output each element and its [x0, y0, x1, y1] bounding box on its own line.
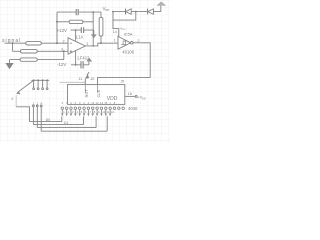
diode D1 [125, 9, 127, 15]
wire diode tap zigzag to gate pin 14 [113, 12, 136, 37]
wire junction drop to R2 line [12, 43, 14, 51]
junction feedback left on input wire [56, 42, 58, 44]
junction -12V rail [75, 64, 77, 66]
svg-text:14: 14 [113, 30, 117, 34]
resistor R4 pull-up vertical [99, 17, 103, 36]
wire feedback left vertical [56, 12, 58, 43]
svg-text:40106: 40106 [122, 49, 134, 54]
wire R4 bottom stub [100, 36, 102, 43]
svg-text:D1: D1 [64, 121, 68, 125]
capacitor C3 decoupling [81, 61, 83, 68]
svg-text:-12V: -12V [57, 62, 66, 67]
ground at +12V cap [91, 34, 97, 38]
wire op-amp top power stub [75, 30, 77, 41]
resistor R3 [20, 58, 37, 61]
wire op-amp bottom power stub [75, 51, 77, 65]
wire output stubs with arrows [62, 110, 110, 114]
resistor R2 [21, 50, 38, 53]
wire bus line 2 [33, 116, 83, 124]
junction VDD node [112, 11, 114, 13]
ground at -12V cap [86, 58, 92, 62]
wire signal input to op-amp pin 2 [5, 42, 69, 44]
svg-text:4040: 4040 [128, 106, 138, 111]
resistor R5 feedback [69, 20, 83, 23]
wire reset line faint [60, 81, 86, 83]
IC U3 4040 counter box [68, 85, 125, 105]
switch contact posts [34, 80, 48, 87]
svg-text:11: 11 [78, 77, 82, 81]
tap digits [33, 102, 43, 106]
wire D2 to supply arrow [153, 6, 160, 12]
wire wiper to bus [15, 95, 17, 107]
arrow RST chevron [87, 72, 89, 75]
junction input node [12, 42, 14, 44]
wire -12V rail [71, 62, 89, 65]
svg-text:3: 3 [61, 47, 63, 51]
svg-text:RST: RST [84, 89, 89, 98]
svg-text:1: 1 [86, 42, 88, 46]
pins Q outputs circles [61, 107, 124, 109]
junction R4 on gate line [100, 42, 102, 44]
wire VDD to diode D1 [113, 11, 126, 13]
wire RST stub [84, 79, 86, 85]
svg-text:IC5A: IC5A [124, 31, 133, 36]
wire feedback capacitor line top [57, 12, 101, 17]
pin numbers row [62, 101, 116, 105]
power supply arrow [156, 1, 166, 5]
junction inner vertical top [92, 11, 94, 13]
capacitor C1 feedback [76, 9, 78, 15]
svg-text:J5: J5 [121, 80, 125, 84]
junction +12V rail [75, 29, 77, 31]
wire R3 line from ground [10, 59, 64, 61]
switch wiper arm arrow [18, 81, 34, 93]
arrows on output stubs [61, 113, 111, 116]
svg-text:1: 1 [114, 38, 116, 42]
op-amp U1 LF412 [68, 38, 85, 54]
schmitt inverter U2 40106 IC5A [118, 36, 131, 49]
svg-text:16: 16 [128, 92, 132, 96]
wire R2 line to op-amp pin 3 [13, 50, 69, 52]
svg-text:10: 10 [90, 77, 94, 81]
diode D2 [147, 9, 149, 15]
junction feedback left on resistor line [56, 21, 58, 23]
pin CLK internal [97, 85, 99, 93]
wire bus line 1 [30, 116, 62, 121]
wire riser R3 to pin3 node [63, 51, 65, 59]
wire tap verticals to bus [33, 107, 41, 132]
capacitor C2 decoupling [81, 27, 83, 33]
svg-text:+12V: +12V [57, 28, 67, 33]
switch S1 contact bar [31, 79, 49, 81]
junction pin3 node [63, 50, 65, 52]
svg-text:L1A: L1A [76, 35, 84, 40]
tap terminal circles [33, 105, 43, 107]
junction inner vertical bottom on output [92, 45, 94, 47]
switch contact circles [33, 88, 48, 90]
wire +12V rail [71, 30, 94, 34]
svg-text:D0: D0 [46, 118, 50, 122]
wire bus line 3 [37, 116, 96, 127]
wire D1 to D2 [131, 11, 147, 13]
wire gate output loop to counter clock [98, 43, 151, 85]
resistor R1 [26, 42, 42, 45]
stub wire number digits [63, 110, 114, 114]
junction diode tap [135, 11, 137, 13]
wire op-amp output [85, 43, 118, 46]
ground input [9, 60, 11, 63]
svg-text:2: 2 [11, 97, 13, 101]
svg-text:2: 2 [63, 39, 65, 43]
wire feedback right vertical inner [92, 12, 94, 46]
svg-text:CLK: CLK [96, 89, 101, 97]
wire pin 16 supply [125, 95, 135, 97]
junction bar dots [33, 79, 48, 81]
pin RST internal [84, 85, 86, 93]
wire feedback resistor line [57, 21, 93, 23]
wire bus line 4 [41, 116, 107, 131]
